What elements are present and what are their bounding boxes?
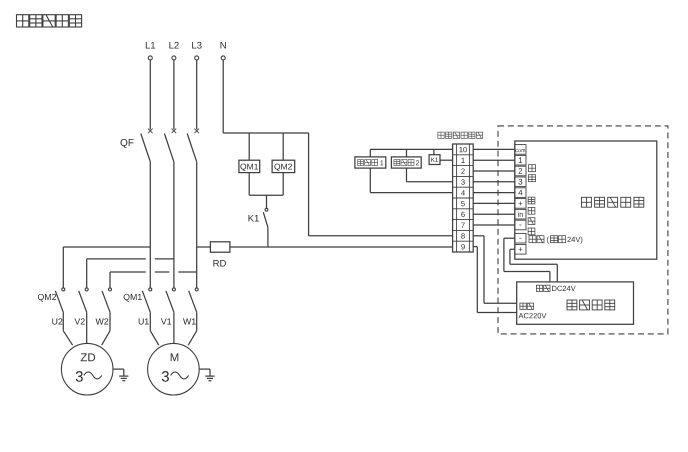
contactor QM2 main contacts xyxy=(38,288,112,312)
wire terminal 3 to board pin 3 xyxy=(473,181,515,183)
wire W2 to motor ZD xyxy=(102,312,110,345)
wire V2 feeder xyxy=(86,259,88,288)
terminal N xyxy=(221,42,226,60)
wire K1 coil to terminal 1 xyxy=(440,159,453,161)
wire terminal 9 to AC input xyxy=(473,247,517,313)
ground (motor M) xyxy=(199,369,214,381)
terminal L2 xyxy=(169,42,178,60)
label 输出DC24V xyxy=(536,285,575,291)
label U1 xyxy=(139,318,149,324)
ground (motor ZD) xyxy=(113,369,128,381)
wire U1 to motor M xyxy=(150,312,159,345)
solenoid valve 反吹阀2 xyxy=(391,157,421,168)
wire phase1 row to ZD xyxy=(63,246,150,248)
solenoid valve 反吹阀1 xyxy=(355,157,386,168)
wire phase3 row to ZD (hops L1,L2) xyxy=(110,271,197,273)
terminal block X1 (10-pin aviation socket) xyxy=(453,144,474,252)
wire board minus to power supply xyxy=(504,238,550,282)
relay contact K1 xyxy=(249,208,268,247)
wire terminal 7 to board pin - xyxy=(473,224,515,226)
contactor coil QM2 xyxy=(272,160,295,172)
wire QM2 coil drop xyxy=(282,133,284,160)
wire W2 feeder xyxy=(109,272,111,288)
wire phase L2 vertical xyxy=(173,162,175,288)
wire fuse RD to terminal 9 xyxy=(230,246,453,248)
wire U2 to motor ZD xyxy=(63,312,72,345)
terminal L3 xyxy=(192,42,201,60)
wire terminal 10 to board pin com xyxy=(473,148,515,150)
wire phase L3 vertical xyxy=(196,162,198,288)
wire V1 to motor M xyxy=(173,312,175,343)
relay coil K1 xyxy=(429,155,440,165)
control board 控制线路板 xyxy=(515,141,657,259)
wire QM1 coil bottom xyxy=(248,173,250,196)
motor M xyxy=(148,343,200,395)
label 十芯航空插座 xyxy=(438,132,483,138)
wire tap to valve1 xyxy=(369,149,371,157)
wire phase L1 vertical xyxy=(149,162,151,288)
label W1 xyxy=(183,318,196,324)
wire coil join bar xyxy=(249,194,283,196)
label 输入 AC220V xyxy=(519,303,547,318)
wire L1 lead xyxy=(149,60,151,129)
wire terminal 2 to board pin 2 xyxy=(473,170,515,172)
circuit breaker QF xyxy=(121,129,200,162)
wire valve1 to terminal 4 xyxy=(370,168,452,193)
label 输出 (output) xyxy=(529,165,536,182)
wire U2 feeder xyxy=(62,247,64,288)
wire terminal 5 to board pin + xyxy=(473,202,515,204)
wire QM1 coil drop xyxy=(248,133,250,160)
contactor coil QM1 xyxy=(239,160,260,172)
control board terminal pins xyxy=(515,145,526,255)
label U2 xyxy=(52,318,62,324)
wire N lead xyxy=(222,60,224,133)
motor ZD xyxy=(61,343,113,395)
wire terminal 8 to AC input xyxy=(473,236,517,303)
label W2 xyxy=(96,318,109,324)
title 电器原理图 xyxy=(17,15,82,27)
label V1 xyxy=(161,318,171,324)
wire W1 to motor M xyxy=(188,312,197,345)
wire terminal 1 to board pin 1 xyxy=(473,159,515,161)
wire tap to valve2 xyxy=(406,149,408,157)
wire phase2 row to ZD (hops L1) xyxy=(87,258,174,260)
label 输入(直流24V) xyxy=(529,236,582,244)
wire valve2 to terminal 3 xyxy=(407,168,453,182)
wire N rail xyxy=(223,132,308,134)
fuse RD xyxy=(210,242,230,267)
wire L3 to fuse RD xyxy=(197,246,211,248)
wire L2 lead xyxy=(173,60,175,129)
wire L3 lead xyxy=(196,60,198,129)
wire QM2 coil bottom xyxy=(282,173,284,196)
wire tap to relay coil K1 xyxy=(433,149,435,154)
contactor QM1 main contacts xyxy=(124,288,199,312)
terminal L1 xyxy=(146,42,155,60)
wire N branch to terminal 8 xyxy=(309,235,453,237)
wire V2 to motor ZD xyxy=(86,312,88,343)
wire terminal 4 to board pin 4 xyxy=(473,192,515,194)
control cabinet (dashed enclosure) xyxy=(498,126,668,334)
wire valve supply rail xyxy=(370,148,452,150)
wire join to K1 contact xyxy=(266,195,268,208)
label V2 xyxy=(75,318,85,324)
wire terminal 6 to board pin in xyxy=(473,213,515,215)
DC power supply 直流电源 xyxy=(517,282,634,324)
label 接近开关 (proximity switch) xyxy=(528,197,535,235)
wire N branch down xyxy=(308,133,310,236)
wire board plus to power supply xyxy=(510,249,557,282)
